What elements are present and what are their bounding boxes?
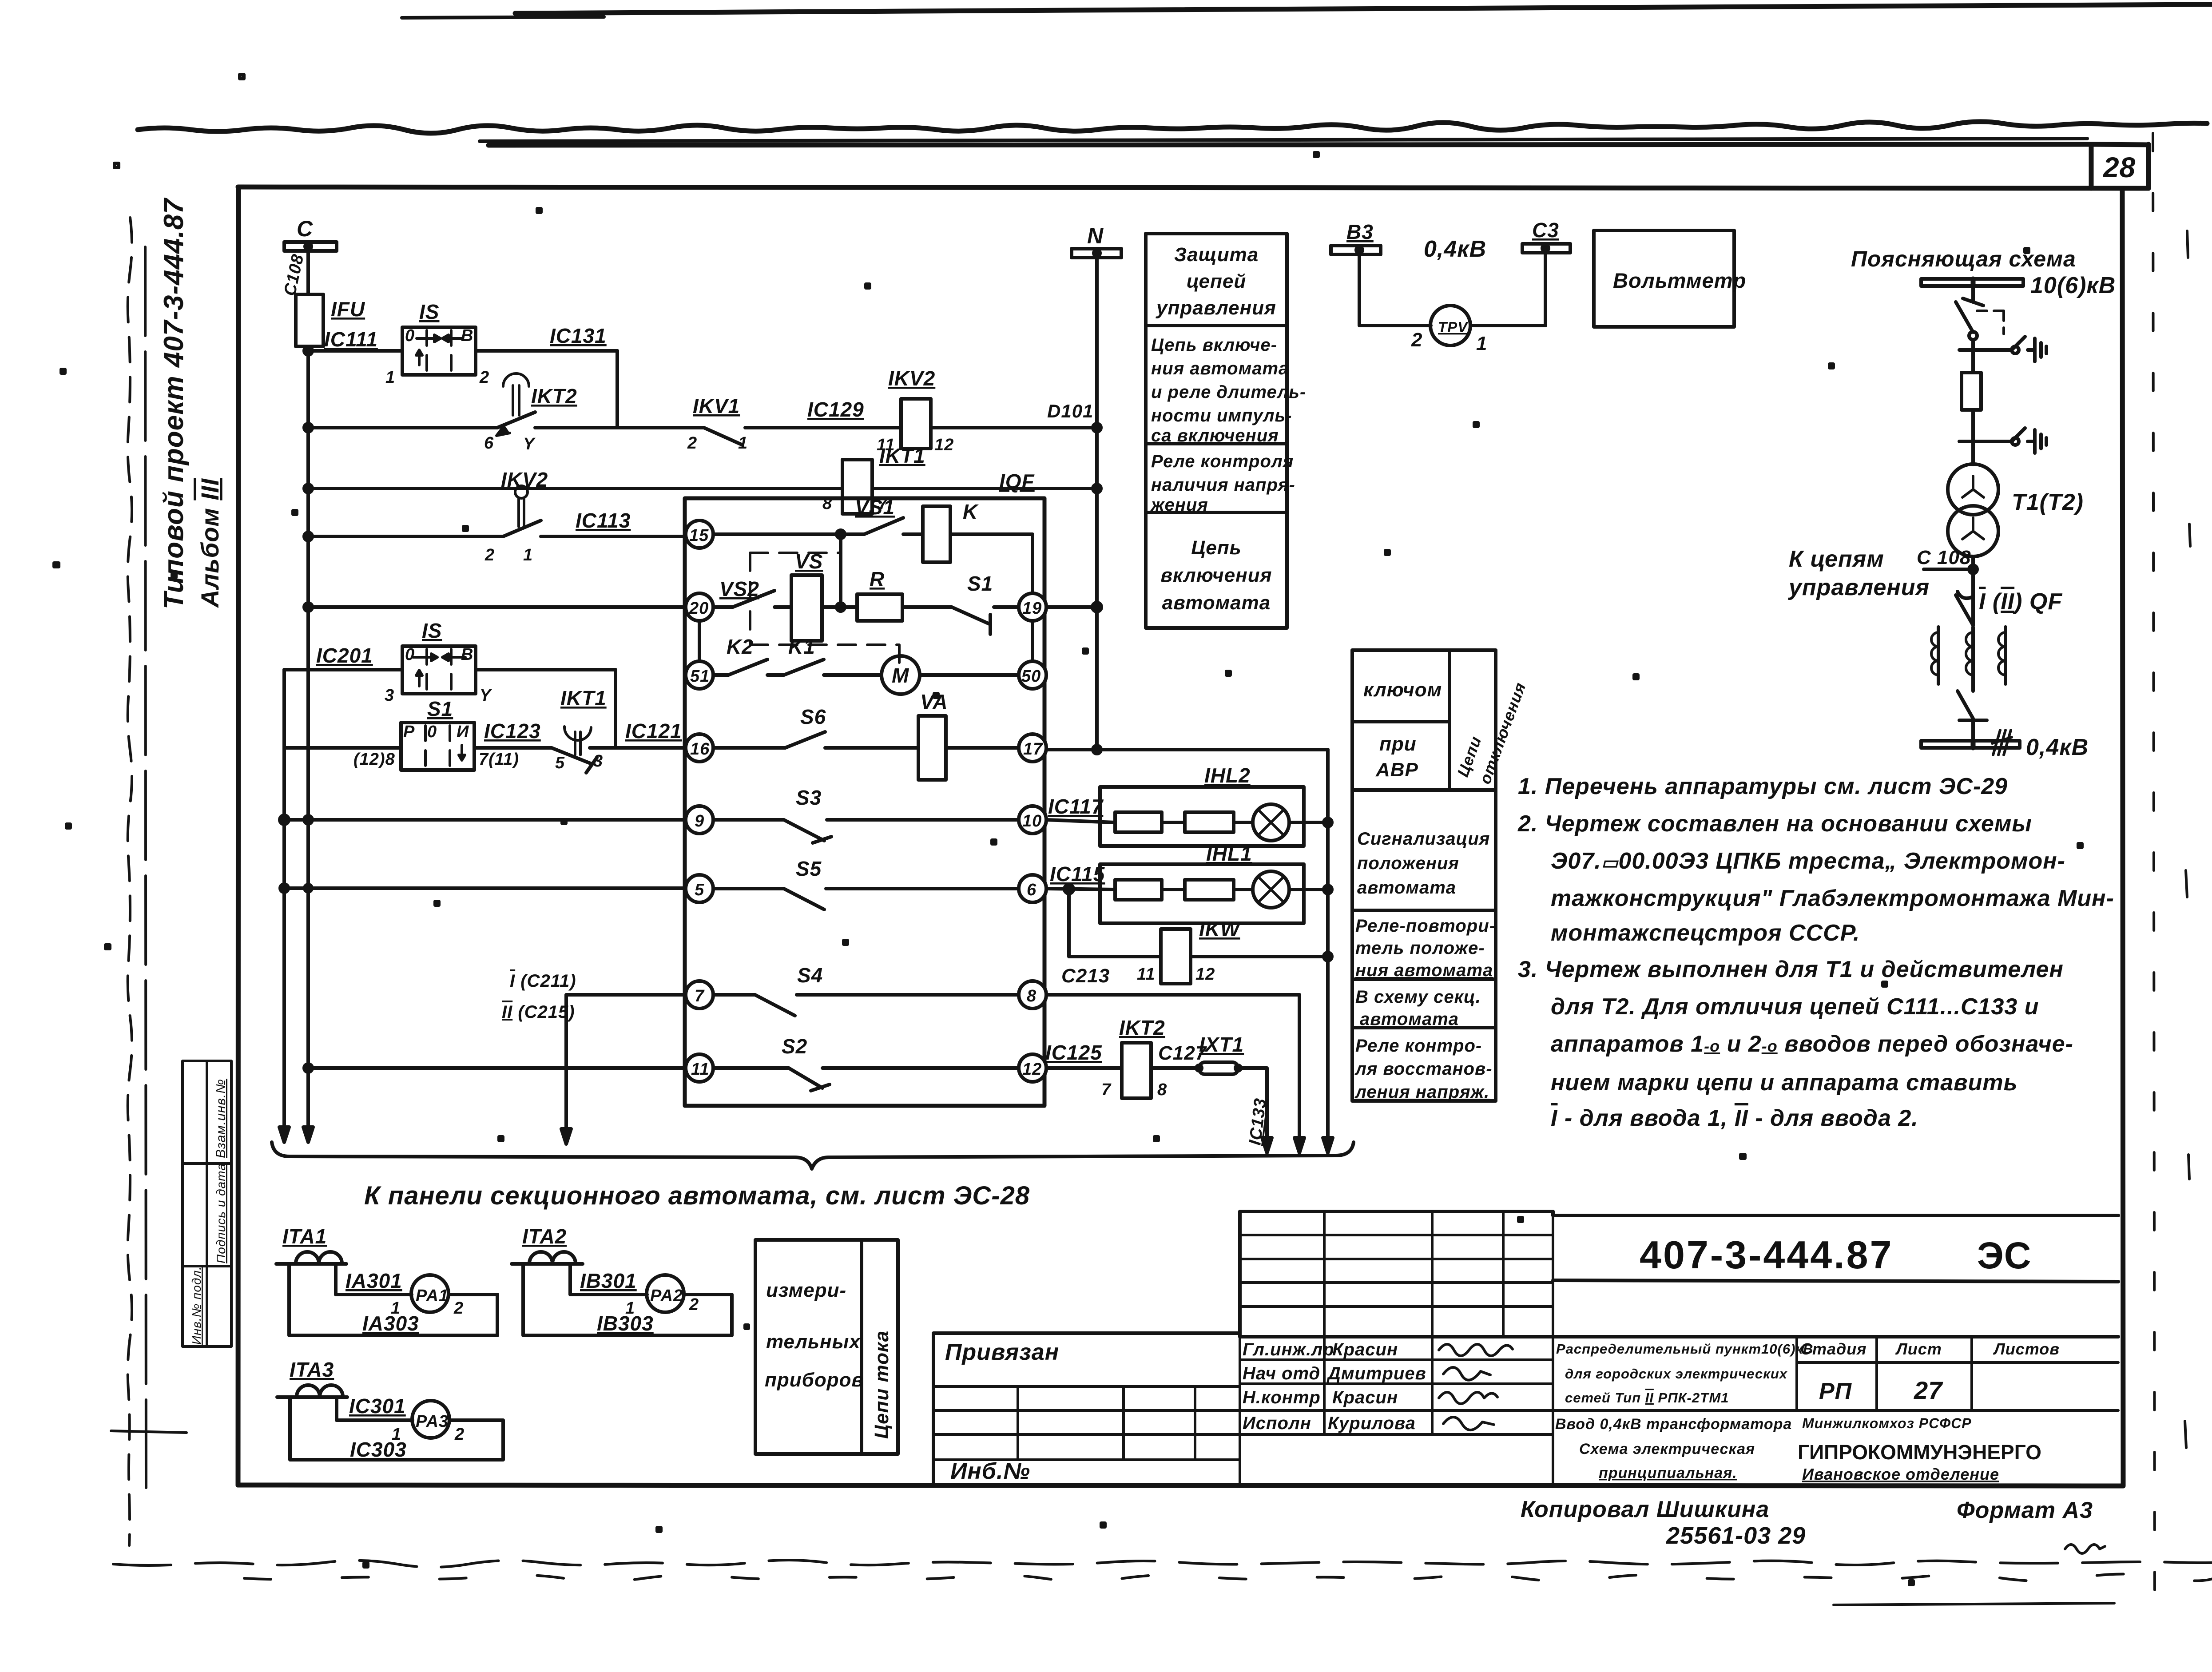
wire row9 inside box [713,818,1019,822]
terminal 10 [1019,806,1046,834]
wire row16 inside box [713,746,1019,750]
svg-text:Подпись и дата: Подпись и дата [214,1163,228,1263]
interlock dashes [1977,311,2004,334]
node row6-rightbus junction [1324,886,1332,894]
table text В схему секц. автомата [1355,987,1481,1029]
bottom-right short line [1834,1603,2114,1605]
contact K2 [728,659,767,675]
svg-text:Привязан: Привязан [945,1339,1059,1365]
svg-text:для Т2. Для отличия цепей: для Т2. Для отличия цепей С111...С133 и [1551,994,2039,1020]
svg-text:6: 6 [484,434,494,453]
svg-text:1: 1 [385,368,395,387]
svg-text:Типовой проект 407-3-444.87: Типовой проект 407-3-444.87 [159,198,189,609]
svg-text:И: И [457,723,469,741]
svg-text:тельных: тельных [766,1331,861,1353]
svg-text:при: при [1379,733,1417,755]
svg-text:IHL2: IHL2 [1204,764,1251,787]
relay coil IKV2 (row2) [901,399,931,449]
title block revision table [1240,1211,1553,1337]
terminal 11 [686,1054,713,1082]
svg-text:IB303: IB303 [597,1312,654,1335]
svg-text:3. Чертеж выполнен для Т1 и: 3. Чертеж выполнен для Т1 и действителен [1518,957,2064,982]
svg-text:Красин: Красин [1332,1340,1398,1359]
fuse IFU [296,294,323,346]
svg-text:РП: РП [1819,1378,1852,1404]
svg-text:Поясняющая схема: Поясняющая схема [1851,246,2076,271]
svg-text:3: 3 [593,752,603,770]
meter PA1 [411,1275,449,1312]
wire HV drop 3 [1971,410,1975,465]
arrow down (IC133) [1262,1138,1272,1153]
terminal 5 [686,875,713,902]
svg-text:сетей Тип II РПК-2ТМ1: сетей Тип II РПК-2ТМ1 [1565,1390,1729,1406]
svg-text:12: 12 [1022,1060,1042,1079]
table text Сигнализация положения автомата [1357,829,1490,898]
svg-text:I (II) QF: I (II) QF [1979,589,2062,615]
wire LV drop [1971,556,1975,625]
svg-text:IC131: IC131 [550,324,607,347]
resistor (IHL1 left) [1115,880,1162,900]
svg-text:S1: S1 [967,572,993,595]
svg-text:IC121: IC121 [625,719,682,743]
svg-text:51: 51 [690,667,710,686]
svg-text:IKV2: IKV2 [501,468,548,491]
svg-text:Минжилкомхоз РСФСР: Минжилкомхоз РСФСР [1802,1415,1972,1431]
svg-text:Формат А3: Формат А3 [1957,1497,2093,1523]
CT ITA1 primary line [276,1262,346,1266]
bus C bar [284,242,337,251]
wire row15 inside box [713,534,1033,593]
box Вольтметр [1594,230,1734,327]
svg-text:(12)8: (12)8 [353,750,395,769]
right sheet scattered marks [2185,231,2190,1448]
svg-text:IC125: IC125 [1045,1041,1102,1064]
svg-text:Реле контро-: Реле контро- [1355,1036,1482,1056]
meter PA2 [647,1275,684,1312]
svg-text:19: 19 [1022,599,1042,618]
svg-text:Красин: Красин [1332,1388,1398,1407]
drawing frame bottom border [238,1485,2123,1486]
svg-text:Инб.№: Инб.№ [950,1458,1030,1484]
svg-text:2: 2 [479,368,489,387]
contact S4 blade [755,995,795,1016]
svg-text:ITA3: ITA3 [290,1358,334,1381]
svg-text:автомата: автомата [1360,1009,1459,1029]
svg-text:50: 50 [1021,667,1041,686]
svg-text:Y: Y [523,435,536,453]
svg-text:6: 6 [1027,881,1037,899]
contact S6 [785,732,825,748]
box Привязан [933,1333,1240,1485]
box измерительных приборов outline [755,1240,898,1454]
svg-text:автомата: автомата [1357,878,1456,898]
svg-text:ITA2: ITA2 [522,1225,567,1248]
svg-text:Альбом III: Альбом III [196,478,224,608]
wire IC201 row [284,670,616,748]
svg-text:B3: B3 [1346,220,1374,243]
wire row12 to IKT2 coil [1046,1066,1199,1070]
CT ITA2 coils [529,1252,576,1263]
svg-text:Схема электрическая: Схема электрическая [1579,1441,1755,1458]
svg-text:Инв.№ подл.: Инв.№ подл. [190,1266,203,1345]
svg-text:Цепь: Цепь [1191,537,1242,559]
svg-text:Курилова: Курилова [1328,1414,1416,1433]
arrow down (C211 feeder) [561,1123,571,1144]
sheet number box top [2091,144,2148,145]
wire C108 tap to control [1924,568,1973,571]
wire row11 inside box [713,1066,1019,1070]
contact IKT2 (row2, with time-delay cup) [496,373,535,436]
table text Цепь включения автомата [1160,537,1272,614]
svg-text:7(11): 7(11) [479,750,519,769]
svg-text:0,4кВ: 0,4кВ [1424,236,1486,262]
svg-text:Реле-повтори-: Реле-повтори- [1355,916,1496,936]
svg-text:IC201: IC201 [316,644,373,667]
bus 0,4кВ bar [1921,741,2020,748]
wire 20-51 vertical [698,621,701,661]
svg-text:IA301: IA301 [346,1269,402,1292]
svg-text:IKT1: IKT1 [879,444,925,467]
relay coil IKT2 (bottom) [1122,1043,1151,1098]
relay coil IKT1 [842,460,872,514]
contact VS2 [733,591,774,607]
bus C3 bar [1522,244,1570,253]
fuse (HV) [1962,373,1981,410]
grounding switch branch 1 [1987,337,2046,361]
node row9 junction2 [304,816,312,824]
svg-text:VS: VS [795,550,823,573]
contact IKV1 (row2) [704,428,743,445]
svg-text:2. Чертеж составлен на осн: 2. Чертеж составлен на основании схемы [1517,811,2032,837]
wire HV drop 1 [1971,286,1975,302]
wire row8 C213 to arrow [1046,995,1299,1137]
svg-text:Гл.инж.лр: Гл.инж.лр [1243,1340,1334,1359]
wire row2 (coil circuit to D101) [308,351,1097,428]
wire row20 inside box [713,605,1019,609]
svg-text:IXT1: IXT1 [1199,1033,1244,1056]
svg-text:ЭС: ЭС [1977,1235,2031,1276]
svg-text:принципиальная.: принципиальная. [1599,1465,1737,1481]
svg-text:ля восстанов-: ля восстанов- [1354,1059,1493,1079]
svg-text:положения: положения [1357,854,1459,873]
svg-text:тель положе-: тель положе- [1355,938,1485,958]
title block signature grid [1240,1333,2118,1485]
svg-text:IKV2: IKV2 [888,367,935,390]
svg-text:25561-03 29: 25561-03 29 [1666,1522,1806,1549]
svg-text:IC303: IC303 [350,1438,407,1461]
svg-text:C 108: C 108 [1917,547,1971,568]
svg-text:S4: S4 [797,964,823,987]
wire IC111 to switch IS [308,349,402,353]
svg-text:C3: C3 [1532,218,1559,242]
current transformers (3 phase) [1931,627,2005,684]
svg-text:0: 0 [427,723,437,741]
wire IKW branch [1069,889,1328,957]
svg-text:Э07.▭00.00Э3 ЦПКБ треста„ Эл: Э07.▭00.00Э3 ЦПКБ треста„ Электромон- [1551,848,2065,874]
junction dots on left feeder [306,487,310,490]
lamp assembly IHL1 enclosure [1100,864,1304,923]
terminal IXT1 [1196,1062,1241,1074]
svg-text:IC115: IC115 [1050,862,1105,886]
svg-text:ления напряж.: ления напряж. [1354,1082,1489,1102]
svg-text:15: 15 [689,526,709,545]
svg-text:1: 1 [523,546,533,564]
wire terminal19 to N feeder [1046,605,1097,609]
svg-text:Лист: Лист [1895,1340,1942,1358]
terminal 9 [686,806,713,834]
wire row7 left with C211/C215 tails [566,995,686,1123]
svg-text:D101: D101 [1047,401,1093,421]
svg-text:17: 17 [1023,740,1043,759]
svg-text:I (C211): I (C211) [510,971,576,991]
svg-text:АВР: АВР [1375,759,1418,781]
wire row5 to circle 20 [308,605,686,609]
wire TPV to C3 [1470,253,1545,326]
arrow down (signal bus) [1323,1138,1333,1153]
terminal 6 [1019,875,1046,902]
svg-text:B: B [461,645,473,664]
relay coil IKW [1161,929,1191,984]
svg-text:407-3-444.87: 407-3-444.87 [1640,1233,1894,1277]
svg-text:IQF: IQF [999,470,1035,493]
node row5 junction [280,884,288,892]
svg-text:10: 10 [1022,812,1042,830]
svg-text:8: 8 [1027,987,1037,1005]
svg-text:Ивановское отделение: Ивановское отделение [1802,1465,1999,1483]
node tap 1 with tick [1959,348,1987,352]
wire C108 vertical from bus C [306,251,310,294]
contact S5 blade [784,889,824,909]
node IKT1-N junction [1093,485,1101,492]
table text Защита цепей управления [1156,244,1276,319]
svg-text:IC111: IC111 [324,328,378,351]
caption К цепям управления [1787,546,1930,600]
LV tick [1959,719,1987,722]
svg-text:Взам.инв.№: Взам.инв.№ [214,1079,228,1158]
table text Цепь включения автомата и реле [1151,335,1306,445]
svg-text:PA3: PA3 [416,1412,449,1431]
svg-text:IKW: IKW [1199,917,1241,941]
svg-text:10(6)кВ: 10(6)кВ [2030,273,2116,298]
Привязан grid [933,1386,1240,1460]
svg-text:11: 11 [1137,965,1155,984]
table text при АВР [1375,733,1418,781]
terminal 17 [1019,734,1046,762]
svg-text:Т1(Т2): Т1(Т2) [2012,489,2084,515]
CT ITA3 primary line [277,1395,347,1399]
svg-text:2: 2 [484,546,495,564]
wire HV drop 2 [1971,340,1975,373]
svg-text:ITA1: ITA1 [282,1225,327,1248]
coil VA [918,716,946,780]
svg-text:Защита: Защита [1174,244,1259,266]
wire row11 left [308,1066,686,1070]
drawing frame right border [2122,190,2123,1485]
node row5 junction2 [305,885,312,892]
sheet number box line [488,144,2148,188]
resistor (IHL1 right) [1185,880,1234,900]
bus B3 bar [1331,246,1381,254]
svg-text:8: 8 [1157,1080,1167,1099]
svg-text:IC129: IC129 [807,398,864,421]
relay coil K [923,506,950,562]
table Защита row lines [1146,326,1287,512]
resistor R [857,594,902,621]
CT ITA2 primary line [512,1262,583,1266]
switch IS (1st input) box [402,327,476,375]
terminal 8 [1019,981,1046,1009]
CT ITA3 secondary loop [290,1397,503,1460]
svg-text:2: 2 [689,1295,699,1314]
svg-text:аппаратов 1-о и 2-о вводов: аппаратов 1-о и 2-о вводов перед обознач… [1551,1031,2073,1057]
svg-text:12: 12 [934,436,954,454]
left feeder vertical wire from C bus down [306,346,310,1128]
svg-text:IS: IS [419,300,439,323]
transformer T1(T2) [1948,464,1998,556]
svg-text:0: 0 [405,645,415,664]
table Защита outline [1146,234,1287,628]
contact VS1 [864,518,903,534]
node 17-N junction [1093,746,1101,754]
svg-text:жения: жения [1150,495,1208,515]
svg-text:0: 0 [405,326,415,345]
svg-text:VS1: VS1 [855,496,895,519]
node IKW-rightbus junction [1324,953,1332,961]
wire IC133 branch [1238,1068,1267,1137]
svg-text:Копировал Шишкина: Копировал Шишкина [1521,1497,1769,1522]
motor M [882,656,920,694]
svg-text:K2: K2 [727,635,754,658]
svg-text:IKT2: IKT2 [1119,1016,1165,1039]
svg-text:S3: S3 [796,786,822,809]
contact K1 [784,659,824,675]
resistor (IHL2 right) [1185,812,1234,832]
node D101 junction [1093,424,1101,432]
стадия-лист grid [1797,1337,2118,1410]
contact S2 blade [789,1068,830,1091]
bottom dashed wavy line 2 [244,1574,2212,1581]
terminal 16 [686,734,713,762]
svg-text:IC301: IC301 [349,1394,406,1418]
svg-text:управления: управления [1156,297,1276,319]
svg-text:16: 16 [690,740,710,759]
svg-text:К панели секционного автом: К панели секционного автомата, см. лист … [364,1181,1030,1210]
meter PA3 [412,1401,449,1438]
svg-text:Цепь включе-: Цепь включе- [1151,335,1277,355]
svg-text:11: 11 [691,1060,709,1079]
bottom dashed wavy line 1 [113,1560,2212,1567]
left inner solid edge line [145,247,146,1488]
wire right signal bus vertical [1326,750,1330,1137]
wire row5/left [284,886,686,890]
node IKW tap junction [1064,885,1073,894]
terminal 20 [686,593,713,621]
svg-text:наличия напря-: наличия напря- [1151,475,1295,495]
switch IS (2nd input) box [402,646,476,694]
wire row17 to right bus [1046,748,1328,751]
svg-text:N: N [1087,223,1104,248]
svg-text:IC123: IC123 [484,719,541,743]
terminal 51 [686,661,713,689]
contact S1 [952,607,990,634]
node IC111 junction [304,347,312,355]
signature row Исполн Курилова [1243,1414,1494,1433]
svg-text:Сигнализация: Сигнализация [1357,829,1490,849]
arrow down (left feeder 2) [303,1127,313,1142]
circuit breaker auxiliary box IQF outline [685,498,1044,1106]
svg-text:C213: C213 [1061,965,1110,987]
svg-text:S1: S1 [427,697,453,720]
svg-text:ния автомата: ния автомата [1355,961,1493,980]
svg-text:IC117: IC117 [1048,795,1104,818]
table Ключом outline [1352,650,1496,1101]
svg-text:P: P [403,723,415,741]
svg-text:Распределительный пункт10(6)кВ: Распределительный пункт10(6)кВ [1556,1341,1814,1357]
svg-text:IFU: IFU [331,298,365,321]
sheet top edge short line [402,17,604,18]
svg-text:приборов: приборов [765,1369,864,1391]
svg-text:IC113: IC113 [576,509,631,532]
wire row10 through lamps [1046,820,1328,822]
svg-text:27: 27 [1914,1376,1943,1404]
svg-text:IKV1: IKV1 [693,394,740,417]
wire row9 left [284,818,686,822]
bus N bar [1072,249,1121,258]
brace under feeders [272,1142,1354,1169]
title block document number box [1553,1215,2118,1282]
terminal 12 [1019,1054,1046,1082]
table text Цепи отключения (rotated) [1453,680,1529,786]
bus 0,4кВ hatches [1992,730,2012,755]
svg-text:нием марки цепи и аппарата: нием марки цепи и аппарата ставить [1551,1070,2017,1096]
svg-text:Нач отд: Нач отд [1243,1364,1320,1383]
node row11 junction [304,1064,312,1072]
CT ITA1 secondary loop [289,1264,497,1335]
table text Реле контроля наличия напряжения [1150,452,1295,515]
dashed linkage around VS [750,553,899,663]
svg-text:7: 7 [695,987,705,1005]
svg-text:2: 2 [454,1425,465,1444]
CT ITA3 coils [297,1385,343,1397]
svg-text:5: 5 [695,881,704,899]
svg-text:TPV: TPV [1438,319,1469,335]
svg-text:12: 12 [1195,965,1215,984]
svg-text:I - для ввода 1, II - для вв: I - для ввода 1, II - для ввода 2. [1551,1105,1918,1131]
svg-text:IA303: IA303 [362,1312,419,1335]
wire SI row / IC123 [284,746,686,750]
CT ITA1 coils [296,1252,342,1263]
signature row Гл.инж.лр Красин [1243,1340,1513,1359]
svg-text:C: C [297,216,313,241]
svg-text:управления: управления [1787,575,1930,600]
sheet top edge line [515,4,2212,13]
svg-text:0,4кВ: 0,4кВ [2026,735,2089,760]
svg-text:K1: K1 [788,635,815,658]
lamp HL1 [1253,871,1289,908]
svg-text:VS2: VS2 [719,577,759,600]
wire IC131 [476,349,617,353]
svg-text:2: 2 [1411,329,1422,351]
svg-text:S5: S5 [796,857,822,880]
wire row5 inside box [713,887,1019,890]
svg-text:са включения: са включения [1151,426,1279,445]
voltmeter TPV [1430,306,1470,346]
signature row Нач отд Дмитриев [1243,1364,1490,1383]
left margin stamp table [183,1061,231,1346]
wire to LV bus [1971,720,1975,741]
svg-text:Исполн: Исполн [1243,1414,1311,1433]
svg-text:ности импуль-: ности импуль- [1151,406,1292,425]
